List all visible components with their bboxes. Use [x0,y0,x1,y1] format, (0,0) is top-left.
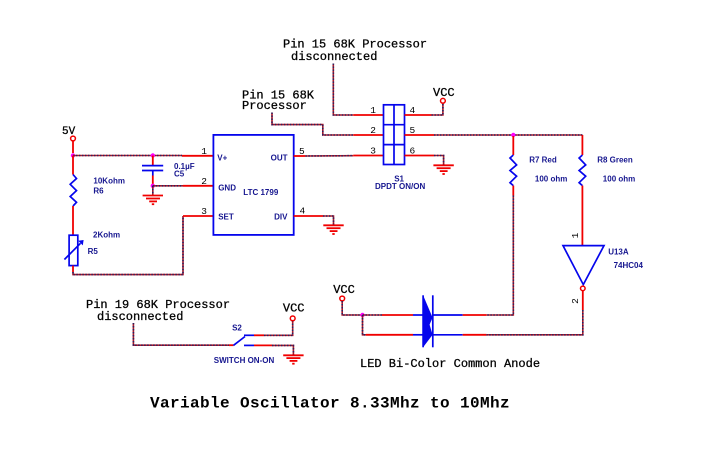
svg-text:2: 2 [570,298,581,304]
wire VCC to LED junction [342,301,361,315]
junction dot C5 bottom [151,184,155,188]
power VCC at S1 [433,86,455,103]
wire C5 bottom to GND pin [153,185,183,187]
power VCC at LED [333,283,355,301]
svg-text:10Kohm: 10Kohm [93,177,125,186]
wire R6 bottom to R5 top [72,206,74,235]
wire R7 bottom lead [512,186,514,196]
capacitor C5 [142,162,195,179]
svg-text:VCC: VCC [333,283,355,297]
svg-text:disconnected: disconnected [97,310,183,324]
wire Pin19 to S2 pole [133,323,229,345]
svg-text:R8 Green: R8 Green [597,156,633,165]
svg-text:R7 Red: R7 Red [529,156,557,165]
svg-text:VCC: VCC [283,302,305,316]
wire pin stub S1 pin 4 [405,114,432,116]
ground at S2 [283,355,303,363]
wire pin stub GND pin 2 [183,185,213,187]
svg-text:Variable Oscillator 8.33Mhz to: Variable Oscillator 8.33Mhz to 10Mhz [150,395,510,413]
wire Pin15 to S1 pin2 [272,113,353,136]
svg-text:100 ohm: 100 ohm [603,174,635,183]
svg-text:S2: S2 [232,324,242,333]
IC U1 LTC 1799 oscillator [213,135,293,235]
wire disconnected stub to S1 pin1 [333,64,353,116]
wire R5 to SET [73,216,183,275]
LED bi-color D1 [413,295,463,347]
svg-text:SWITCH ON-ON: SWITCH ON-ON [214,356,275,365]
junction dot C5 top [151,153,155,157]
wire pin stub S2 bottom throw [254,344,272,346]
svg-text:100 ohm: 100 ohm [535,174,567,183]
annotation Pin 15 68K Processor [242,88,315,113]
wire pin stub LED bottom cathode [463,334,487,336]
svg-text:3: 3 [201,206,207,217]
wire pin stub OUT pin 5 [294,155,306,157]
svg-text:74HC04: 74HC04 [614,261,644,270]
wire pin stub S1 pin 3 [353,155,383,157]
wire DIV to ground [323,216,334,225]
svg-text:2Kohm: 2Kohm [93,231,120,240]
svg-text:disconnected: disconnected [291,50,377,64]
wire pin stub S1 pin 6 [405,155,435,157]
svg-text:1: 1 [570,232,581,238]
svg-text:1: 1 [201,146,207,157]
junction dot LED anode [360,313,364,317]
svg-text:R6: R6 [93,186,104,195]
svg-text:OUT: OUT [271,154,288,163]
svg-text:4: 4 [300,206,306,217]
wire pin stub S2 pole [229,344,233,346]
wire pin stub LED top cathode [463,314,487,316]
wire pin stub S1 pin 5 [405,134,435,136]
wire S2 top throw to VCC [264,321,293,335]
wire pin stub SET pin 3 [183,215,213,217]
wire R7 to LED top cathode [486,196,513,316]
wire S2 bottom throw to ground [272,345,293,355]
wire R8 to U13A input [581,186,583,246]
svg-text:LTC 1799: LTC 1799 [243,188,279,197]
wire C5 top lead [152,156,154,166]
wire pin stub LED bottom anode [366,334,413,336]
svg-text:DIV: DIV [274,212,288,221]
svg-text:DPDT ON/ON: DPDT ON/ON [375,182,425,191]
svg-text:R5: R5 [88,247,99,256]
wire U13A output lead [582,291,584,310]
wire R6 top lead [72,156,74,175]
resistor R6 [70,175,125,207]
svg-text:2: 2 [370,125,376,136]
svg-text:Processor: Processor [242,99,307,113]
wire ground stem below C5 [152,186,154,196]
node 5V terminal [62,126,76,153]
wire pin stub V+ pin 1 [182,155,213,157]
wire S1 pin4 to VCC [432,103,443,115]
wire 5V rail horizontal [73,155,182,157]
resistor R8 [579,155,635,186]
resistor R7 [510,155,567,186]
svg-text:3: 3 [370,146,376,157]
svg-text:LED Bi-Color Common Anode: LED Bi-Color Common Anode [360,357,540,371]
svg-text:GND: GND [218,183,236,192]
wire S1 pin5 to R7 R8 [434,134,582,136]
wire pin stub DIV pin 4 [294,215,323,217]
ground at DIV [323,225,343,234]
svg-text:U13A: U13A [608,247,629,256]
svg-text:C5: C5 [174,170,185,179]
switch S2 [214,324,275,365]
svg-text:V+: V+ [217,154,227,163]
ground below C5 [143,196,163,205]
wire pin stub S2 top throw [254,334,264,336]
svg-text:1: 1 [370,105,376,116]
wire R7 top lead [512,136,514,155]
wire junction to LED top anode [363,314,383,316]
wire pin stub S1 pin 1 [353,114,383,116]
switch S1 DPDT [375,105,425,191]
junction dot 5V rail [71,153,75,157]
wire U13A output to LED bottom cathode [486,310,582,335]
resistor R5 (variable) [64,231,120,266]
inverter U13A 74HC04 [563,246,644,291]
wire R8 top lead [581,135,583,155]
power VCC at S2 [283,302,305,321]
annotation Pin 15 68K Processor disconnected [283,38,427,64]
wire R5 bottom lead [72,266,74,272]
wire OUT to S1 pin3 [305,155,353,157]
wire pin stub S1 pin 2 [353,134,383,136]
annotation Pin 19 68K Processor disconnected [86,298,230,324]
wire C5 bottom lead [152,176,154,185]
svg-text:2: 2 [201,176,207,187]
ground at S1 pin6 [433,165,453,174]
svg-text:SET: SET [218,212,234,221]
wire junction down to LED bottom anode [363,315,367,335]
wire pin stub LED top anode [382,314,413,316]
junction dot R7 top [511,133,515,137]
wire S1 pin6 to ground [434,156,444,166]
